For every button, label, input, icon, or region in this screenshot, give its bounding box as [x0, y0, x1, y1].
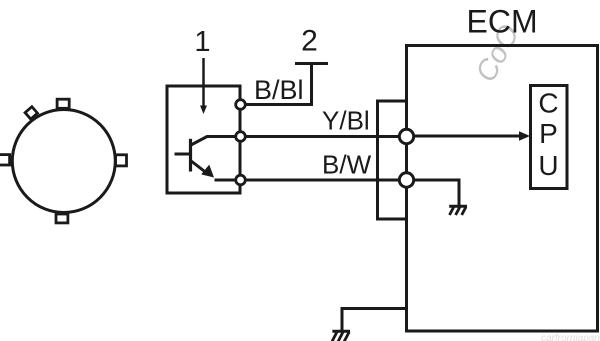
svg-text:B/W: B/W	[322, 150, 372, 180]
svg-text:B/Bl: B/Bl	[254, 75, 304, 105]
CPU box	[531, 86, 568, 189]
wire B/Bl	[246, 64, 312, 105]
wire Y/Bl	[246, 135, 399, 138]
connector block	[378, 101, 407, 219]
wire B/W to chassis ground	[415, 180, 460, 205]
svg-text:ECM: ECM	[467, 4, 538, 40]
sensor tab upper-left	[25, 107, 37, 119]
sensor tab bottom	[56, 214, 68, 223]
ECM box	[407, 46, 598, 332]
ECM ground wire	[342, 309, 407, 331]
svg-text:carfrornjapan con: carfrornjapan con	[541, 333, 600, 341]
watermark (decorative)	[470, 20, 600, 341]
connector pin 2 (B/W)	[399, 173, 413, 187]
igniter box (component 1)	[167, 86, 240, 193]
svg-text:1: 1	[194, 26, 210, 58]
chassis ground (sensor return)	[449, 206, 467, 215]
sensor tab right	[116, 155, 127, 166]
chassis ground (ECM)	[332, 331, 350, 341]
sensor tab left	[0, 155, 10, 165]
terminal pin bottom (B/W)	[236, 175, 246, 185]
svg-text:Y/Bl: Y/Bl	[322, 106, 370, 136]
label CPU	[538, 88, 558, 182]
transistor Q1	[175, 137, 236, 181]
terminal pin middle (Y/Bl)	[236, 132, 246, 142]
leader arrow for label 1	[200, 58, 207, 114]
sensor tab top	[57, 99, 69, 108]
terminal 2 symbol	[295, 62, 328, 65]
connector pin 1 (Y/Bl)	[399, 129, 413, 143]
svg-text:C: C	[538, 88, 558, 119]
wire connector pin1 to CPU with arrow	[415, 135, 522, 138]
svg-text:2: 2	[301, 25, 318, 58]
svg-text:U: U	[538, 150, 558, 181]
terminal pin top (B/Bl)	[236, 100, 246, 110]
svg-text:P: P	[539, 118, 558, 149]
pickup coil sensor (distributor)	[0, 99, 127, 223]
wire B/W	[246, 179, 399, 182]
